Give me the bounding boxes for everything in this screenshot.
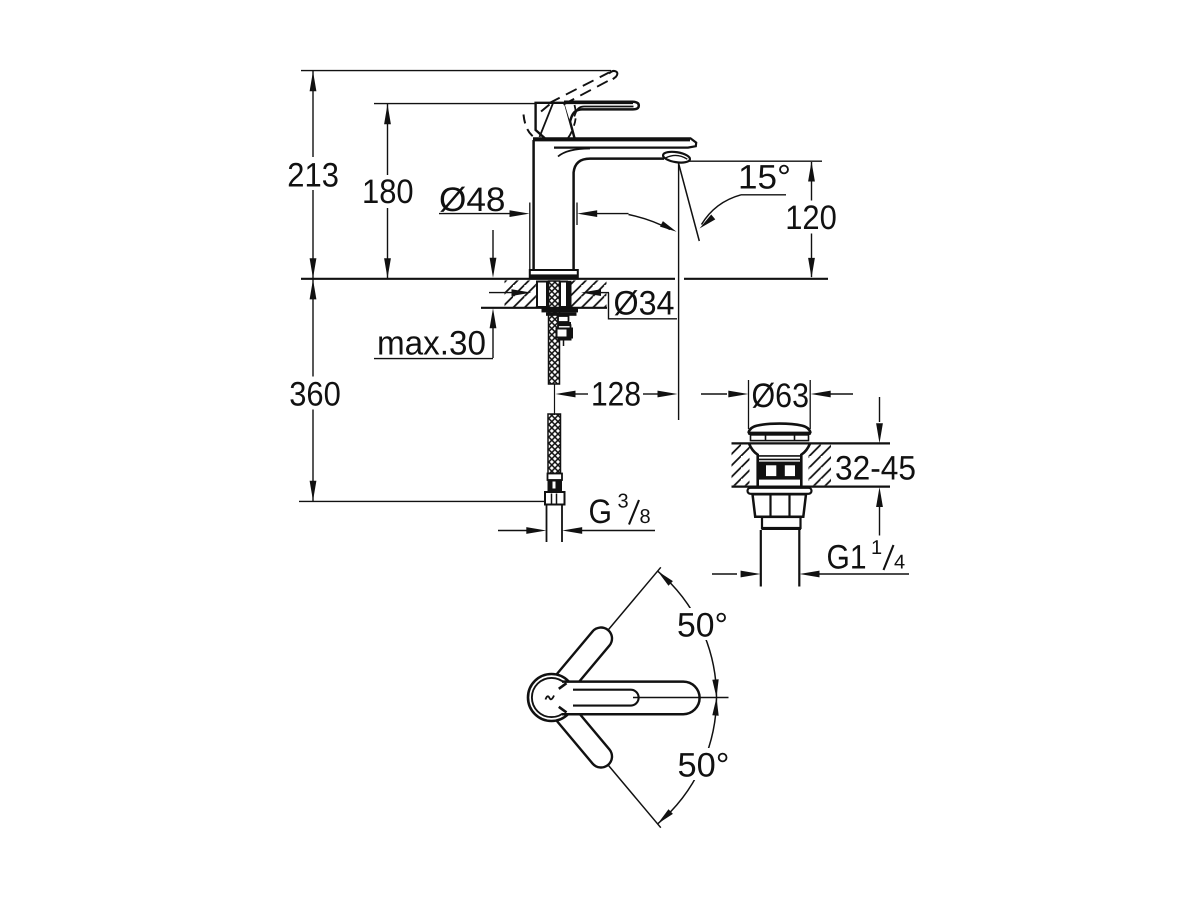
svg-text:G1: G1 [827,539,867,577]
svg-text:50°: 50° [677,607,728,645]
handle lever inner outline (top view) [573,690,639,706]
dimension 32-45 lower arrow [876,487,883,536]
dimension G1 1/4 label [827,537,906,577]
handle lever horizontal (top view) [562,682,700,715]
wire: countertop surface line right part [684,278,828,280]
faucet spout shoulder highlight arc [558,149,590,157]
handle lever rotated +50deg (top view) [561,639,602,687]
wire: 180 top reference line [374,103,536,105]
dimension max.30 lower arrow [490,308,497,358]
dimension Ø48 label [439,181,506,219]
svg-text:15°: 15° [738,159,791,197]
svg-text:3: 3 [618,491,629,513]
dimension 15 deg leader [700,195,787,229]
dimension G3/8 arrows [498,527,655,534]
wire: 120 top reference line [689,160,822,162]
dimension Ø63 extension lines [749,380,811,429]
mounting stud middle piece [558,325,571,328]
svg-text:1: 1 [871,537,882,559]
dimension 128 line [556,376,678,414]
handle raised position dashed lower edge [564,79,613,105]
mounting stud upper piece [558,316,569,322]
mounting stud dark band [558,322,572,325]
svg-text:Ø63: Ø63 [752,377,810,415]
hose connector sleeve [548,474,563,493]
arrowhead arc upper at centerline [712,679,718,697]
drain collar [762,517,802,530]
dimension max.30 upper arrow [490,230,497,278]
handle neck wedge lower [559,707,567,713]
dimension 120 line [781,162,841,278]
valve center mark [546,696,555,700]
handle swivel arc upper [658,571,717,697]
mounting stud tail line [563,341,565,347]
handle rotation ray +50deg [566,567,661,680]
svg-text:8: 8 [640,506,651,528]
dimension Ø34 arrows [489,289,609,296]
mounting washer narrow [546,312,577,315]
svg-text:Ø34: Ø34 [614,285,675,323]
hatch: basin section right of drain [809,445,832,486]
handle rotation ray -50deg [566,714,661,827]
dimension Ø63 arrows [701,391,853,398]
faucet body column [534,140,664,270]
wire: countertop underside line [481,307,607,309]
hose centerline gap [554,384,556,415]
svg-text:max.30: max.30 [377,325,486,363]
arrowhead arc lower at ray [658,809,673,824]
dimension Ø34 label box [609,293,678,319]
arrowhead arc upper at ray [658,571,673,586]
drain cap dome [748,424,811,435]
mounting nut [557,329,573,338]
dimension 32-45 label [835,450,916,488]
wire: 360 bottom reference line [299,500,544,502]
hatch: countertop section left of faucet shank [505,280,537,307]
dimension G3/8 label [589,491,651,532]
angle arc from Ø48 line to spout vertical [629,215,677,232]
faucet aerator outlet [662,150,690,164]
dimension Ø48 extension lines [530,203,577,270]
dimension 32-45 upper arrow [876,397,883,443]
wire: horizontal centerline (top view) [633,697,729,699]
handle swivel arc lower [658,698,717,824]
handle knuckle (side view) [536,103,575,139]
svg-text:50°: 50° [678,747,730,785]
mounting washer wide [542,308,579,312]
drain locknut [753,494,807,517]
handle rotation dashed arc left [524,115,544,140]
braided hose lower segment [548,414,561,474]
handle raised position dashed upper edge [549,73,609,104]
valve body circle (top view) [528,674,575,721]
handle neck wedge upper [559,683,567,689]
dimension Ø63 label [752,377,810,415]
wire: 213 top reference line [301,70,611,72]
wire: countertop surface line left part [301,278,675,280]
dimension 180 line [358,104,418,278]
svg-text:120: 120 [785,199,837,237]
spout stream vertical reference line [678,164,680,421]
faucet shank threaded rod section [567,281,572,308]
wire: basin underside line [732,486,891,488]
hose end tube [547,505,563,543]
svg-text:213: 213 [287,157,339,195]
hose end nut G3/8 [545,492,565,505]
handle raised position tip cap [609,71,617,79]
drain body window band [758,462,802,480]
handle raised dashed inner segment [538,105,550,115]
svg-text:G: G [589,493,613,531]
dimension Ø34 label [614,285,675,323]
hatch: countertop section right of faucet shank [572,280,607,307]
handle lever rotated -50deg (top view) [561,708,602,756]
svg-text:128: 128 [591,376,641,414]
dimension 50 deg lower label [676,747,732,785]
mounting nut lower band [558,338,572,341]
faucet shank left wall [537,282,547,308]
dimension G1 1/4 arrows [712,571,909,578]
drain body groove lines [758,456,802,460]
faucet top deck plate [533,138,696,147]
handle rotation dashed arc right [568,105,576,138]
dimension 360 line [285,279,345,501]
dimension 15 deg label [738,159,791,197]
faucet shank right wall [560,282,567,308]
hatch: basin section left of drain [732,445,750,486]
wire: basin surface top line [732,442,891,444]
arrowhead arc lower at centerline [712,698,718,716]
drain cap skirt [751,435,809,441]
drain tailpipe G1 1/4 [761,530,800,587]
drain washer [748,488,812,494]
drain body funnel [749,444,810,487]
dimension Ø48 arrows [439,210,629,217]
svg-text:180: 180 [362,173,414,211]
dimension 213 line [284,71,344,278]
dimension 50 deg upper label [675,607,731,645]
faucet shank braided hose in hole [549,281,560,384]
handle lever horizontal (side view) [564,102,639,122]
svg-text:360: 360 [289,376,341,414]
spout stream slanted line 15 deg [679,164,700,242]
svg-text:4: 4 [894,552,905,574]
svg-text:32-45: 32-45 [835,450,916,488]
faucet base escutcheon plate [530,270,579,279]
dimension max.30 label [374,325,493,363]
